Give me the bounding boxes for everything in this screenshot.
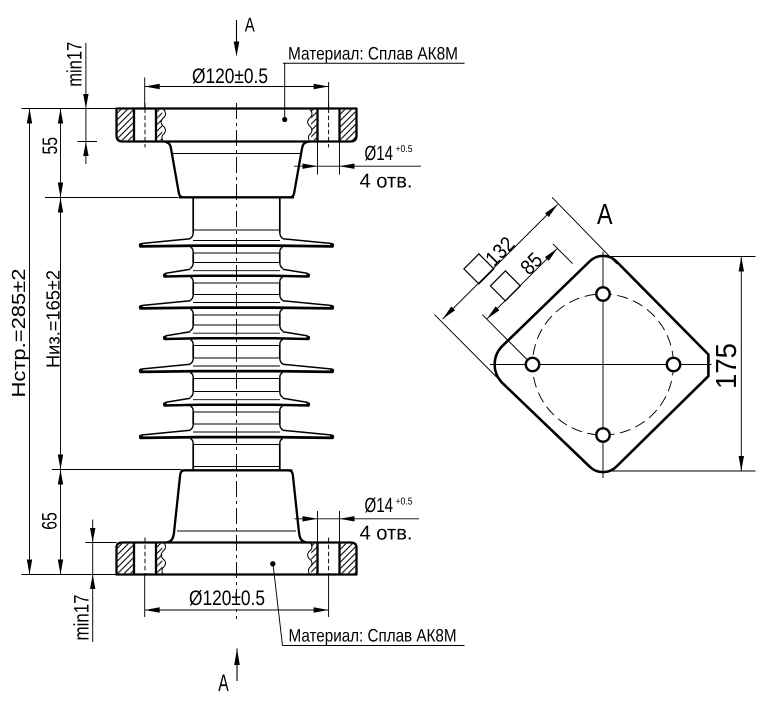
svg-text:Ø14: Ø14	[365, 142, 394, 165]
svg-text:+0.5: +0.5	[396, 497, 413, 508]
svg-text:A: A	[245, 14, 255, 36]
svg-text:Материал: Сплав АК8М: Материал: Сплав АК8М	[288, 44, 458, 64]
svg-text:min17: min17	[71, 595, 94, 641]
svg-text:Ø14: Ø14	[365, 494, 394, 517]
svg-text:A: A	[218, 670, 229, 697]
svg-text:Ø120±0.5: Ø120±0.5	[189, 587, 265, 610]
svg-text:Нстр.=285±2: Нстр.=285±2	[9, 269, 30, 398]
svg-text:65: 65	[39, 512, 62, 530]
svg-text:+0.5: +0.5	[396, 144, 413, 155]
svg-text:4 отв.: 4 отв.	[360, 523, 413, 545]
svg-text:4 отв.: 4 отв.	[360, 171, 413, 193]
svg-text:Низ.=165±2: Низ.=165±2	[44, 270, 65, 368]
svg-text:Материал: Сплав АК8М: Материал: Сплав АК8М	[289, 626, 457, 646]
svg-text:175: 175	[711, 343, 743, 389]
svg-text:Ø120±0.5: Ø120±0.5	[192, 65, 268, 88]
svg-text:min17: min17	[64, 42, 87, 87]
svg-text:A: A	[597, 199, 613, 231]
svg-text:55: 55	[39, 137, 62, 155]
